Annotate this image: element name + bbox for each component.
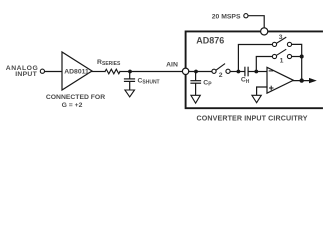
label CONNECTED FOR G = +2 (46, 94, 105, 109)
svg-text:AD8011: AD8011 (64, 68, 89, 75)
svg-text:H: H (246, 79, 250, 85)
svg-text:SERIES: SERIES (102, 61, 121, 67)
switch S1 (272, 50, 291, 65)
ground (252, 95, 261, 102)
svg-text:INPUT: INPUT (15, 71, 37, 78)
junction (194, 70, 198, 74)
wire (238, 45, 272, 72)
wire (248, 16, 264, 28)
junction (128, 70, 132, 74)
junction (254, 70, 258, 74)
wire (256, 71, 267, 73)
wire (45, 71, 62, 73)
svg-text:20 MSPS: 20 MSPS (212, 13, 241, 20)
clock bubble (261, 28, 268, 35)
svg-text:AD876: AD876 (196, 36, 224, 46)
capacitor CSHUNT (125, 72, 160, 90)
wire (130, 71, 182, 73)
node AIN (166, 61, 189, 74)
ground (125, 90, 135, 97)
wire (189, 71, 212, 73)
switch S2 (212, 64, 230, 79)
capacitor CH (238, 67, 256, 85)
svg-text:G = +2: G = +2 (62, 102, 83, 109)
junction (300, 55, 304, 59)
wire (292, 44, 302, 80)
wire (256, 57, 272, 72)
wire (293, 80, 309, 82)
node ANALOG INPUT (6, 65, 45, 78)
ground (191, 95, 200, 103)
svg-text:2: 2 (219, 72, 223, 79)
capacitor CP (191, 72, 212, 96)
wire (120, 71, 130, 73)
arrow output (309, 78, 317, 83)
junction (237, 70, 241, 74)
wire (257, 87, 267, 95)
svg-text:AIN: AIN (166, 61, 178, 68)
wire (230, 71, 238, 73)
node 20 MSPS clock input (212, 13, 248, 20)
AD876 box (186, 31, 322, 108)
svg-text:SHUNT: SHUNT (142, 80, 159, 86)
op-amp U1 AD8011 (62, 52, 92, 90)
svg-text:1: 1 (280, 58, 284, 65)
wire (92, 71, 105, 73)
svg-text:CONVERTER INPUT CIRCUITRY: CONVERTER INPUT CIRCUITRY (197, 115, 308, 123)
junction (300, 78, 304, 82)
switch S3 (272, 34, 291, 47)
resistor RSERIES (97, 59, 121, 74)
comparator U2 (267, 67, 293, 93)
wire (292, 56, 302, 58)
svg-text:CONNECTED FOR: CONNECTED FOR (46, 94, 105, 101)
svg-text:3: 3 (279, 34, 283, 41)
